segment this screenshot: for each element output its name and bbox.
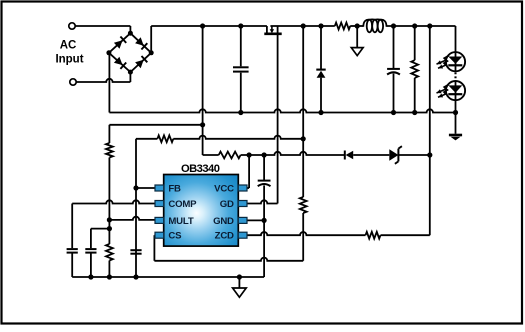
svg-text:VCC: VCC	[214, 183, 234, 194]
svg-text:GND: GND	[213, 216, 234, 227]
svg-text:AC: AC	[60, 40, 77, 52]
svg-text:MULT: MULT	[168, 216, 193, 227]
svg-text:COMP: COMP	[168, 199, 197, 210]
svg-text:CS: CS	[168, 231, 182, 242]
svg-text:ZCD: ZCD	[215, 231, 234, 242]
svg-text:OB3340: OB3340	[181, 163, 220, 175]
svg-text:FB: FB	[168, 183, 181, 194]
svg-text:GD: GD	[220, 199, 234, 210]
svg-text:Input: Input	[55, 54, 83, 66]
